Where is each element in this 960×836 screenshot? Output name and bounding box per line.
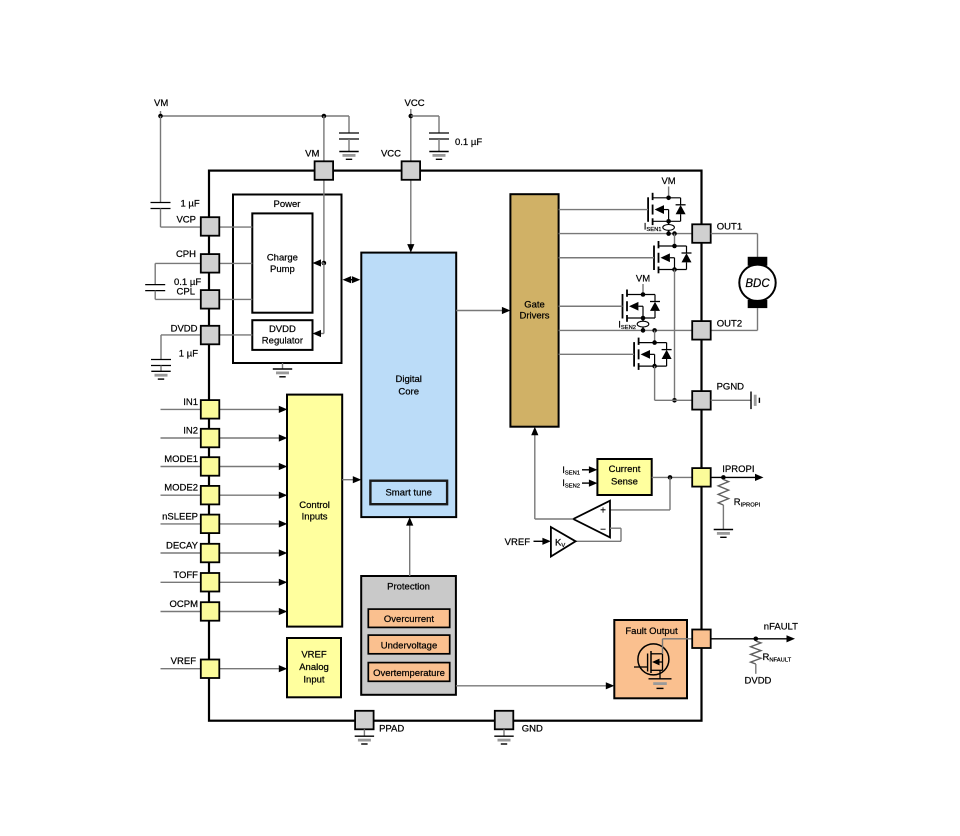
wire pullup to DVDD <box>755 664 757 674</box>
svg-text:Pump: Pump <box>270 264 295 275</box>
svg-text:1 µF: 1 µF <box>179 349 198 360</box>
wire Power to Digital Core (bidirectional arrow) <box>345 279 358 281</box>
svg-text:+: + <box>600 506 606 517</box>
junction nFAULT/pullup <box>754 637 759 642</box>
wire VM to DVDD Regulator (arrow) <box>316 333 324 335</box>
svg-text:Drivers: Drivers <box>519 311 549 322</box>
pin pad MODE2 <box>201 486 220 505</box>
block Digital Core <box>361 253 456 517</box>
block VREF Analog Input <box>287 638 341 697</box>
wire DECAY stub <box>161 552 201 554</box>
wire PGND to ground <box>711 399 751 401</box>
svg-text:CPL: CPL <box>177 287 195 298</box>
svg-text:Overcurrent: Overcurrent <box>384 614 435 625</box>
wire nFAULT out (arrow) <box>711 638 791 640</box>
current sense element ISEN2 (ellipse) <box>642 318 644 321</box>
junction OUT2/LS2 drain <box>652 328 657 333</box>
svg-text:Analog: Analog <box>299 662 329 673</box>
wire ISEN2 into Current Sense (arrow) <box>582 482 594 484</box>
transistor LS1 (low-side OUT1) <box>654 241 692 273</box>
transistor LS2 (low-side OUT2) <box>634 338 672 370</box>
svg-text:OCPM: OCPM <box>170 599 199 610</box>
svg-text:Current: Current <box>609 464 641 475</box>
wire OUT1 net <box>559 233 693 235</box>
svg-text:Protection: Protection <box>387 582 430 593</box>
junction LS1 drain top <box>672 244 677 249</box>
svg-text:TOFF: TOFF <box>173 570 198 581</box>
wire VREF to VREF Analog Input <box>219 668 283 670</box>
wire VM rail (top) <box>160 111 162 116</box>
wire OCPM to Control Inputs <box>219 611 283 613</box>
pin pad DECAY <box>201 544 220 563</box>
pin pad VREF <box>201 660 220 679</box>
svg-text:VREF: VREF <box>301 650 327 661</box>
svg-text:IPROPI: IPROPI <box>722 464 754 475</box>
svg-text:DVDD: DVDD <box>745 676 772 687</box>
wire fault FET drain to nFAULT pad <box>662 639 664 654</box>
junction VM internal <box>322 261 327 266</box>
pin pad MODE1 <box>201 457 220 476</box>
wire LS2 drain <box>654 330 656 342</box>
junction LS1 source <box>672 267 677 272</box>
pin pad CPL <box>201 290 220 309</box>
wire LS1 drain <box>674 234 676 246</box>
block Control Inputs <box>287 395 342 627</box>
svg-text:VCC: VCC <box>405 98 425 109</box>
pin pad VCC <box>402 161 421 180</box>
wire Current Sense to IPROPI pad <box>652 476 693 478</box>
junction HS2 source <box>641 316 646 321</box>
wire VCP cap to VCP pin <box>160 209 162 228</box>
wire VM internal feed <box>323 180 325 263</box>
pin pad IN2 <box>201 429 220 448</box>
block DVDD Regulator <box>252 320 312 350</box>
transistor HS2 (high-side OUT2) <box>623 290 661 322</box>
pin pad OCPM <box>201 602 220 621</box>
wire LS2 source to PGND net <box>654 366 656 400</box>
wire gate LS1 <box>559 257 654 259</box>
block Overtemperature <box>368 663 449 682</box>
op-amp (current sense comparator) <box>573 501 610 538</box>
junction VM rail left <box>158 114 163 119</box>
wire VREF into Kv (arrow) <box>534 540 548 542</box>
pin pad OUT2 <box>692 321 711 340</box>
wire fault FET source to ground <box>659 670 661 679</box>
capacitor 0.1uF (CPH-CPL flying cap) <box>145 284 165 286</box>
block Charge Pump <box>252 213 312 312</box>
svg-text:Fault Output: Fault Output <box>625 626 678 637</box>
wire OCPM stub <box>161 611 201 613</box>
junction HS1 source <box>666 219 671 224</box>
junction VCC rail <box>409 114 414 119</box>
svg-text:VM: VM <box>305 149 319 160</box>
resistor RIPROPI <box>718 480 728 506</box>
junction OUT1/ISEN1 <box>666 231 671 236</box>
pin pad VM <box>315 161 334 180</box>
wire CPH to flying cap <box>155 262 201 264</box>
wire TOFF to Control Inputs <box>219 581 283 583</box>
wire TOFF stub <box>161 581 201 583</box>
wire Protection to Fault Output (arrow) <box>456 685 611 687</box>
ground (DVDD cap) <box>160 370 162 372</box>
junction VM rail at pad drop <box>322 114 327 119</box>
svg-text:VCC: VCC <box>381 149 401 160</box>
wire op-amp minus to Kv output <box>610 527 621 529</box>
pin pad PGND <box>692 391 711 410</box>
wire VCC rail <box>410 109 412 161</box>
svg-text:VM: VM <box>636 274 650 285</box>
svg-text:Input: Input <box>303 675 324 686</box>
block Gate Drivers <box>510 194 558 427</box>
wire IN2 stub <box>161 437 201 439</box>
junction HS2 drain <box>641 292 646 297</box>
junction LS2 source <box>652 364 657 369</box>
wire VM rail to VM pad <box>323 116 325 161</box>
transistor open-drain fault FET (in circle) <box>634 644 669 675</box>
wire MODE2 stub <box>161 494 201 496</box>
pin pad GND <box>495 711 514 730</box>
wire gate HS1 <box>559 209 649 211</box>
wire RIPROPI to ground <box>722 505 724 530</box>
svg-text:Core: Core <box>398 387 419 398</box>
wire VM to Charge Pump (arrow) <box>316 262 324 264</box>
svg-text:DECAY: DECAY <box>166 541 199 552</box>
wire ISEN1 into Current Sense (arrow) <box>582 469 594 471</box>
ground (VCC bypass cap) <box>438 151 440 153</box>
svg-text:VREF: VREF <box>505 537 531 548</box>
capacitor VM bypass <box>339 132 359 134</box>
junction OUT1/LS1 drain <box>672 231 677 236</box>
svg-text:−: − <box>600 525 606 536</box>
pin pad CPH <box>201 254 220 273</box>
wire VREF stub <box>161 668 201 670</box>
svg-text:IN2: IN2 <box>183 426 198 437</box>
svg-text:BDC: BDC <box>745 278 770 290</box>
wire MODE2 to Control Inputs <box>219 494 283 496</box>
wire VCP pin to Charge Pump <box>219 226 252 228</box>
block Overcurrent <box>368 609 449 627</box>
wire flying cap to CPL <box>154 291 156 300</box>
pin pad nSLEEP <box>201 515 220 534</box>
capacitor 1uF (VCP flying cap from VM) <box>160 116 162 203</box>
junction OUT2/ISEN2 <box>641 328 646 333</box>
svg-text:Smart tune: Smart tune <box>385 488 431 499</box>
pin pad nFAULT <box>692 630 711 649</box>
svg-text:Overtemperature: Overtemperature <box>373 668 445 679</box>
wire Protection to Digital Core (arrow) <box>409 521 411 577</box>
block Protection <box>361 576 456 695</box>
block Undervoltage <box>368 635 449 654</box>
block Smart tune <box>370 481 447 505</box>
svg-text:nFAULT: nFAULT <box>764 622 798 633</box>
junction LS1 source at PGND net <box>672 398 677 403</box>
wire gate LS2 <box>559 353 635 355</box>
junction current sense output <box>668 475 673 480</box>
wire MODE1 stub <box>161 466 201 468</box>
svg-text:OUT1: OUT1 <box>717 222 742 233</box>
wire nSLEEP stub <box>161 523 201 525</box>
ground (Power block) <box>282 363 284 369</box>
svg-text:VM: VM <box>661 176 675 187</box>
svg-text:Control: Control <box>299 500 330 511</box>
svg-text:VCP: VCP <box>176 215 196 226</box>
wire OUT2 net <box>559 329 693 331</box>
pin pad VCP <box>201 217 220 236</box>
wire MODE1 to Control Inputs <box>219 466 283 468</box>
block Power <box>233 195 342 364</box>
wire CPL pin to Charge Pump <box>219 298 252 300</box>
wire IN1 to Control Inputs <box>219 408 283 410</box>
svg-text:Inputs: Inputs <box>302 512 328 523</box>
wire Digital Core to Gate Drivers (arrow) <box>456 310 507 312</box>
wire CPH pin to Charge Pump <box>219 262 252 264</box>
svg-text:IN1: IN1 <box>183 397 198 408</box>
junction IPROPI/resistor <box>721 475 726 480</box>
svg-text:MODE1: MODE1 <box>164 454 198 465</box>
current sense element ISEN1 (ellipse) <box>668 221 670 224</box>
amplifier Kv <box>551 527 576 557</box>
svg-text:CPH: CPH <box>176 249 196 260</box>
wire VM rail to bypass cap <box>348 116 350 133</box>
pin pad IPROPI <box>692 468 711 487</box>
wire DECAY to Control Inputs <box>219 552 283 554</box>
svg-text:0.1 µF: 0.1 µF <box>455 137 482 148</box>
svg-text:GND: GND <box>522 724 543 735</box>
ground (GND pin) <box>503 729 505 736</box>
ground (PPAD) <box>363 729 365 736</box>
wire nSLEEP to Control Inputs <box>219 523 283 525</box>
junction HS1 drain <box>666 196 671 201</box>
svg-text:Power: Power <box>274 199 301 210</box>
junction LS2 drain top <box>652 340 657 345</box>
wire VM to HS1 drain <box>668 187 670 198</box>
svg-text:PGND: PGND <box>717 381 745 392</box>
svg-text:Gate: Gate <box>524 300 545 311</box>
pin pad DVDD <box>201 326 220 345</box>
block Current Sense <box>597 459 651 495</box>
wire op-amp output to Gate Drivers (arrow) <box>535 518 574 520</box>
svg-text:DVDD: DVDD <box>269 324 296 335</box>
device outline (chip boundary) <box>209 171 702 721</box>
wire DVDD pin to DVDD Regulator <box>219 334 252 336</box>
svg-text:PPAD: PPAD <box>379 724 404 735</box>
block Fault Output <box>614 620 687 698</box>
pin pad IN1 <box>201 400 220 419</box>
ground (VM bypass cap) <box>348 151 350 153</box>
wire IN1 stub <box>161 408 201 410</box>
pin pad PPAD <box>355 711 374 730</box>
wire IPROPI out (arrow) <box>711 476 760 478</box>
wire gate HS2 <box>559 305 623 307</box>
motor BDC <box>739 257 775 308</box>
resistor RNFAULT (pullup) <box>751 641 761 664</box>
svg-text:Undervoltage: Undervoltage <box>381 641 438 652</box>
svg-text:Sense: Sense <box>611 477 638 488</box>
pin pad TOFF <box>201 573 220 592</box>
svg-text:Charge: Charge <box>267 253 298 264</box>
svg-text:1 µF: 1 µF <box>181 199 200 210</box>
svg-text:VM: VM <box>154 98 168 109</box>
wire OUT1 to motor <box>711 233 758 235</box>
svg-text:OUT2: OUT2 <box>717 318 742 329</box>
svg-text:DVDD: DVDD <box>171 324 198 335</box>
wire VCC to Digital Core (arrow) <box>410 180 412 249</box>
wire Control Inputs to Digital Core (arrow) <box>342 479 358 481</box>
svg-text:MODE2: MODE2 <box>164 483 198 494</box>
capacitor 1uF (DVDD) <box>151 359 171 361</box>
ground (PGND, right-facing) <box>750 392 752 410</box>
svg-text:nSLEEP: nSLEEP <box>162 511 198 522</box>
wire LS1 source to PGND net <box>674 270 676 401</box>
wire VM to HS2 drain <box>642 284 644 295</box>
svg-text:VREF: VREF <box>171 656 197 667</box>
transistor HS1 (high-side OUT1) <box>648 193 686 225</box>
wire to op-amp + input <box>669 477 671 510</box>
ground (RIPROPI) <box>722 529 724 531</box>
ground (fault FET) <box>649 678 672 680</box>
wire DVDD to 1uF cap <box>161 334 201 336</box>
pin pad OUT1 <box>692 224 711 243</box>
wire motor to OUT2 <box>757 308 759 330</box>
wire IN2 to Control Inputs <box>219 437 283 439</box>
svg-text:Regulator: Regulator <box>262 336 303 347</box>
capacitor 0.1uF (VCC bypass) <box>429 132 449 134</box>
svg-text:Digital: Digital <box>395 374 421 385</box>
